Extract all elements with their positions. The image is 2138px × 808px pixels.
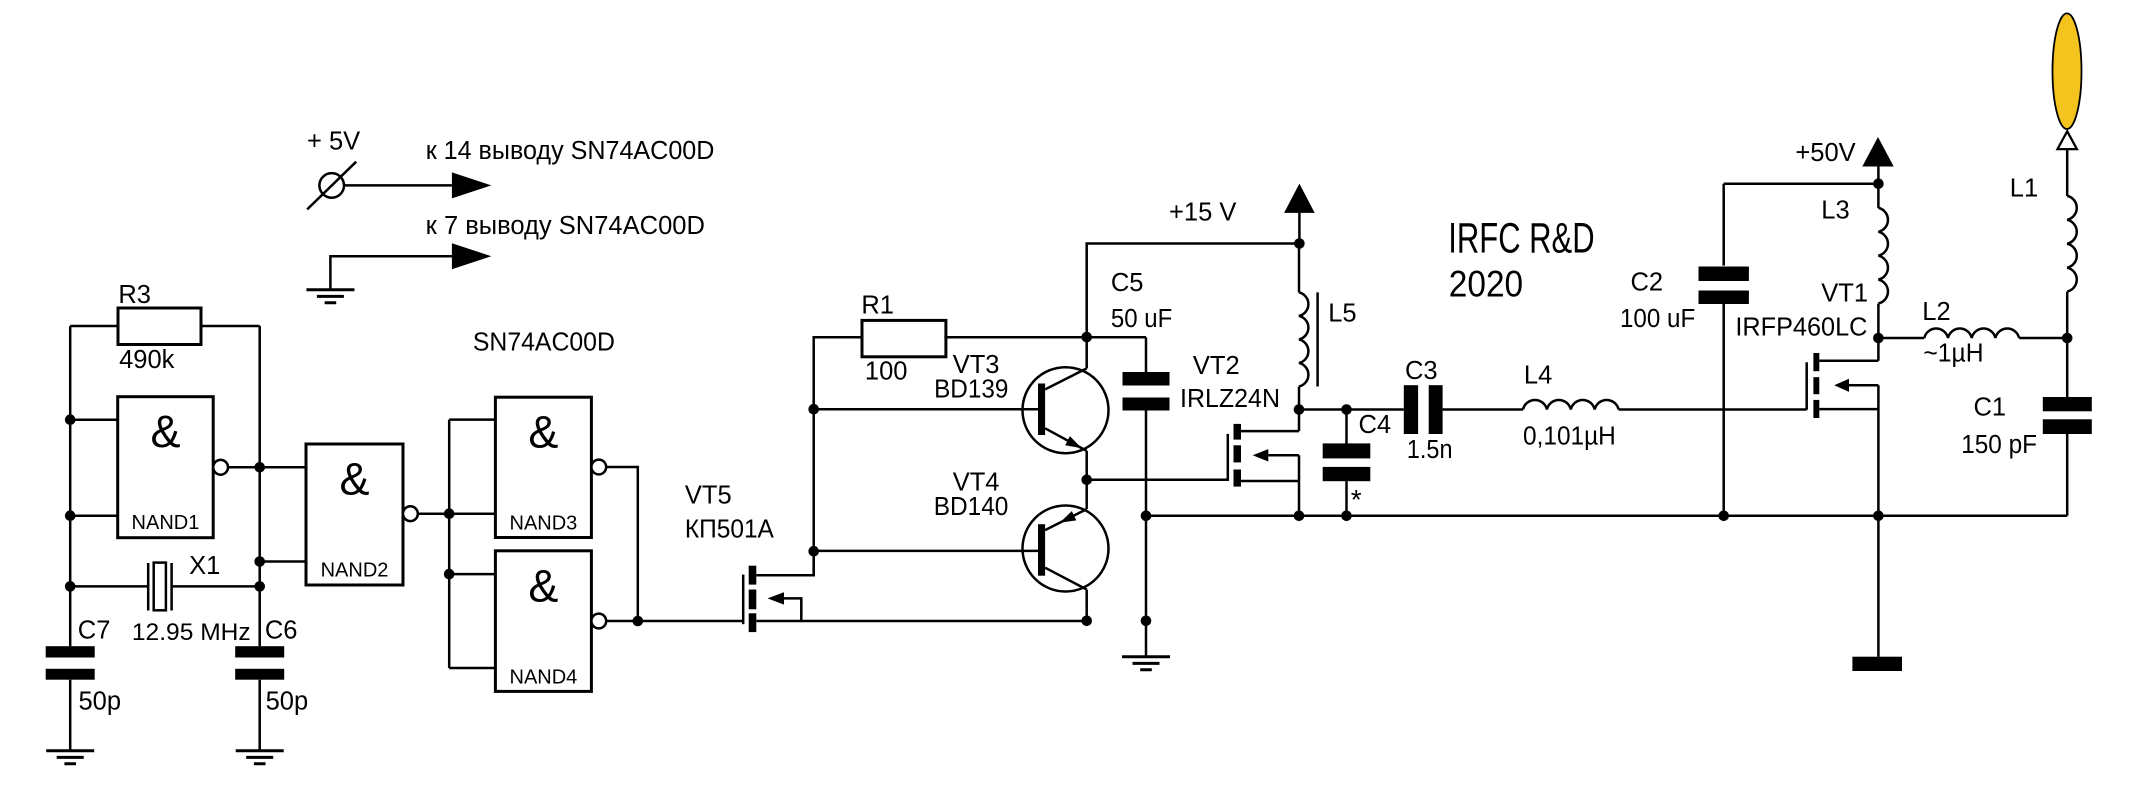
wire xyxy=(606,467,638,621)
svg-text:100: 100 xyxy=(865,358,908,386)
arrow to pin 7 of SN74AC00D xyxy=(426,212,705,269)
inductor L2 ~1uH xyxy=(1878,298,2067,368)
wire xyxy=(448,420,451,668)
resistor R1 100 xyxy=(861,292,946,386)
inductor L3 xyxy=(1821,184,1888,338)
arrow to pin 14 of SN74AC00D xyxy=(426,137,715,198)
svg-text:*: * xyxy=(1351,484,1362,515)
svg-text:+15 V: +15 V xyxy=(1169,199,1236,227)
wire to ground xyxy=(1877,516,1880,657)
wire driver output to VT2 gate xyxy=(1087,479,1228,482)
svg-text:IRFP460LC: IRFP460LC xyxy=(1735,314,1867,342)
wire xyxy=(260,467,306,561)
svg-text:NAND2: NAND2 xyxy=(321,560,389,582)
wire xyxy=(228,466,260,469)
+15V supply rail xyxy=(1087,213,1300,337)
capacitor C4 xyxy=(1323,410,1391,516)
capacitor C2 100 uF xyxy=(1620,184,1878,516)
inductor L5 xyxy=(1299,244,1357,410)
wire xyxy=(449,420,495,668)
svg-text:+ 5V: + 5V xyxy=(307,128,360,156)
node xyxy=(1141,511,1152,522)
svg-text:L2: L2 xyxy=(1922,298,1950,326)
svg-text:X1: X1 xyxy=(189,552,220,580)
NAND2 output bubble xyxy=(403,506,418,521)
svg-text:NAND1: NAND1 xyxy=(132,512,200,534)
capacitor C6 50p xyxy=(235,617,308,716)
svg-text:L4: L4 xyxy=(1524,362,1552,390)
wire to ground xyxy=(1145,621,1148,657)
NAND gate NAND1 xyxy=(118,397,214,538)
capacitor C5 50 uF xyxy=(1087,269,1173,621)
ground (driver stage) xyxy=(1122,657,1170,670)
+5V supply terminal xyxy=(307,128,360,210)
wire base rail xyxy=(814,337,861,575)
NAND gate NAND4 xyxy=(495,551,591,692)
inductor L1 xyxy=(2010,149,2077,338)
svg-text:SN74AC00D: SN74AC00D xyxy=(473,328,615,356)
svg-text:VT2: VT2 xyxy=(1193,352,1240,380)
wire VT5 drain xyxy=(756,551,813,575)
+15 V supply symbol xyxy=(1169,184,1315,227)
ground (C7) xyxy=(46,751,94,764)
node xyxy=(444,508,455,519)
node xyxy=(65,581,76,592)
NAND4 output bubble xyxy=(591,614,606,629)
svg-text:100 uF: 100 uF xyxy=(1620,305,1695,333)
svg-text:IRLZ24N: IRLZ24N xyxy=(1180,385,1280,413)
node xyxy=(1341,511,1352,522)
node NAND1 output xyxy=(254,462,265,473)
NAND1 output bubble xyxy=(213,460,228,475)
wire xyxy=(1877,167,1880,184)
svg-text:L3: L3 xyxy=(1821,197,1849,225)
svg-text:C1: C1 xyxy=(1974,394,2007,422)
wire xyxy=(70,585,260,588)
wire xyxy=(70,325,260,328)
capacitor C1 150 pF xyxy=(1961,338,2092,516)
svg-text:50 uF: 50 uF xyxy=(1111,305,1172,333)
transistor VT5 KP501A (n-MOSFET) xyxy=(685,482,801,633)
svg-text:BD139: BD139 xyxy=(934,376,1008,404)
svg-text:R3: R3 xyxy=(118,281,151,309)
svg-text:BD140: BD140 xyxy=(934,493,1009,521)
svg-text:IRFC R&D: IRFC R&D xyxy=(1448,215,1594,263)
svg-text:50p: 50p xyxy=(79,688,122,716)
svg-text:L1: L1 xyxy=(2010,175,2038,203)
svg-text:2020: 2020 xyxy=(1449,263,1523,304)
svg-text:VT1: VT1 xyxy=(1821,280,1868,308)
svg-text:C3: C3 xyxy=(1405,357,1438,385)
ground (output stage, bar style) xyxy=(1852,657,1902,671)
transistor VT2 IRLZ24N (n-MOSFET) xyxy=(1180,352,1299,516)
svg-text:C6: C6 xyxy=(265,617,298,645)
wire to VT5 gate xyxy=(638,620,743,623)
node xyxy=(808,404,819,415)
node xyxy=(1341,404,1352,415)
wire xyxy=(69,326,72,646)
svg-text:490k: 490k xyxy=(119,346,175,374)
wire xyxy=(944,336,1086,339)
+50V supply symbol xyxy=(1795,137,1893,167)
node xyxy=(1294,404,1305,415)
node NAND1 inputs xyxy=(65,414,76,425)
transistor VT3 BD139 (NPN) xyxy=(934,337,1108,480)
wire xyxy=(70,420,118,516)
title IRFC R&D 2020 xyxy=(1448,215,1594,305)
NAND gate NAND2 xyxy=(306,444,403,585)
wire xyxy=(344,184,452,187)
NAND3 output bubble xyxy=(591,460,606,475)
wire xyxy=(606,620,638,623)
svg-text:12.95 MHz: 12.95 MHz xyxy=(132,619,251,646)
svg-text:C4: C4 xyxy=(1359,411,1392,439)
svg-text:~1µH: ~1µH xyxy=(1923,340,1983,368)
capacitor C3 1.5n xyxy=(1404,357,1453,464)
inductor L4 0,101uH xyxy=(1523,362,1619,451)
antenna tip (discharge terminal) xyxy=(2058,131,2077,149)
wire xyxy=(418,512,449,515)
svg-text:50p: 50p xyxy=(266,688,309,716)
node xyxy=(1873,333,1884,344)
wire VT3 base xyxy=(814,408,1038,411)
corona flame xyxy=(2053,13,2082,129)
svg-text:C7: C7 xyxy=(78,617,111,645)
svg-text:&: & xyxy=(339,454,369,505)
svg-text:NAND4: NAND4 xyxy=(510,666,578,688)
NAND gate NAND3 xyxy=(495,397,591,537)
svg-text:L5: L5 xyxy=(1328,299,1356,327)
node VT3 collector xyxy=(1081,332,1092,343)
node xyxy=(1873,511,1884,522)
svg-text:150 pF: 150 pF xyxy=(1961,431,2037,459)
transistor VT1 IRFP460LC (n-MOSFET) xyxy=(1735,280,1878,516)
ground (logic supply return) xyxy=(306,290,354,303)
svg-text:&: & xyxy=(528,560,558,611)
wire bottom return rail xyxy=(1146,515,2067,518)
node xyxy=(2062,333,2073,344)
svg-text:&: & xyxy=(528,407,558,458)
wire mid rail xyxy=(1299,408,1404,411)
svg-text:NAND3: NAND3 xyxy=(510,513,578,535)
node xyxy=(633,616,644,627)
svg-text:C5: C5 xyxy=(1111,269,1144,297)
wire xyxy=(1443,408,1523,411)
node xyxy=(1873,178,1884,189)
svg-text:C2: C2 xyxy=(1631,269,1664,297)
node xyxy=(254,556,265,567)
wire VT5 source xyxy=(756,620,1086,623)
wire xyxy=(330,256,452,290)
wire to VT1 gate xyxy=(1619,408,1807,411)
node VT4 collector xyxy=(1081,616,1092,627)
wire xyxy=(69,680,72,751)
node driver output xyxy=(1081,475,1092,486)
capacitor C7 50p xyxy=(46,617,121,716)
node xyxy=(1718,511,1729,522)
svg-text:VT5: VT5 xyxy=(685,482,732,510)
resistor R3 xyxy=(118,281,201,374)
svg-text:к 7 выводу SN74AC00D: к 7 выводу SN74AC00D xyxy=(426,212,705,240)
svg-text:КП501А: КП501А xyxy=(685,516,774,544)
svg-text:к 14 выводу SN74AC00D: к 14 выводу SN74AC00D xyxy=(426,137,715,165)
svg-text:0,101µH: 0,101µH xyxy=(1523,423,1616,451)
ground (C6) xyxy=(236,751,284,764)
wire xyxy=(258,326,261,646)
svg-text:&: & xyxy=(150,406,180,457)
crystal X1 12.95 MHz xyxy=(132,552,251,646)
svg-text:1.5n: 1.5n xyxy=(1407,436,1453,464)
transistor VT4 BD140 (PNP) xyxy=(814,469,1109,621)
svg-text:+50V: +50V xyxy=(1795,139,1855,167)
wire xyxy=(258,680,261,751)
node xyxy=(1294,238,1305,249)
svg-text:R1: R1 xyxy=(861,292,894,320)
node xyxy=(1294,511,1305,522)
